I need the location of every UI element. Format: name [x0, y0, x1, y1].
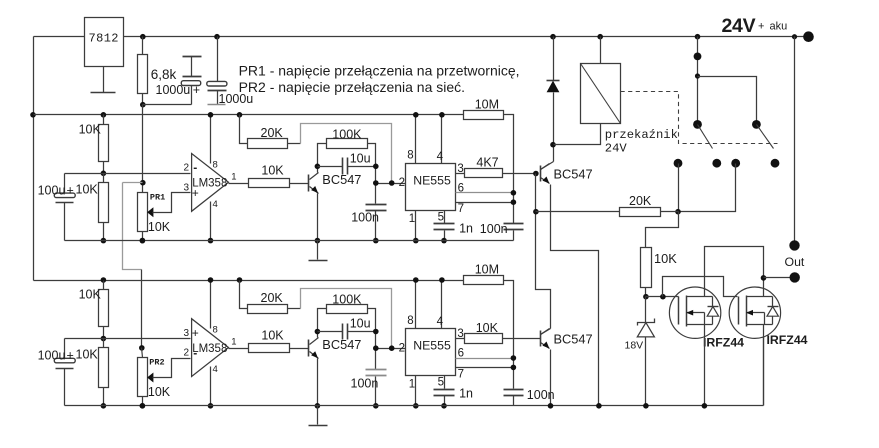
svg-text:10u: 10u: [350, 317, 371, 331]
svg-text:+: +: [67, 349, 74, 363]
svg-text:1: 1: [231, 337, 236, 348]
svg-text:-: -: [193, 346, 197, 360]
svg-text:20K: 20K: [261, 291, 284, 305]
svg-text:18V: 18V: [625, 340, 644, 352]
svg-text:100n: 100n: [351, 377, 379, 391]
svg-text:6: 6: [458, 348, 464, 360]
svg-text:IRFZ44: IRFZ44: [767, 333, 808, 347]
svg-text:BC547: BC547: [554, 332, 593, 347]
svg-text:100K: 100K: [332, 127, 362, 141]
svg-text:Out: Out: [785, 255, 805, 269]
svg-text:NE555: NE555: [413, 339, 451, 353]
svg-text:10K: 10K: [148, 220, 171, 234]
svg-text:4: 4: [213, 199, 218, 210]
svg-text:+: +: [193, 83, 200, 97]
svg-text:4: 4: [213, 364, 218, 375]
svg-text:PR1 - napięcie przełączenia na: PR1 - napięcie przełączenia na przetworn…: [239, 63, 520, 79]
svg-text:5: 5: [438, 212, 444, 224]
svg-text:2: 2: [399, 342, 405, 354]
svg-text:100K: 100K: [332, 293, 362, 307]
svg-text:+: +: [192, 186, 199, 200]
svg-text:6: 6: [458, 183, 464, 195]
svg-text:10K: 10K: [76, 348, 99, 362]
svg-text:10K: 10K: [76, 183, 99, 197]
svg-text:4: 4: [437, 316, 444, 328]
svg-text:24V: 24V: [605, 142, 628, 156]
svg-text:+: +: [192, 326, 199, 340]
svg-text:10K: 10K: [654, 251, 677, 266]
svg-text:100n: 100n: [351, 211, 379, 225]
svg-text:+: +: [67, 184, 74, 198]
svg-text:LM358: LM358: [192, 343, 227, 355]
svg-text:1n: 1n: [459, 222, 473, 236]
svg-text:10M: 10M: [475, 97, 499, 111]
svg-text:10K: 10K: [79, 288, 102, 302]
svg-text:-: -: [193, 161, 197, 175]
svg-text:1000u: 1000u: [156, 83, 191, 97]
svg-text:3: 3: [184, 328, 190, 339]
svg-text:10K: 10K: [79, 123, 102, 137]
svg-text:7812: 7812: [89, 32, 119, 46]
svg-text:7: 7: [458, 368, 464, 380]
svg-text:1: 1: [409, 378, 415, 390]
svg-text:8: 8: [213, 160, 218, 171]
svg-text:10M: 10M: [475, 263, 499, 277]
svg-text:20K: 20K: [629, 194, 652, 208]
svg-text:1: 1: [231, 171, 236, 182]
svg-text:8: 8: [407, 150, 413, 162]
svg-text:8: 8: [407, 315, 413, 327]
svg-text:PR2 - napięcie przełączenia na: PR2 - napięcie przełączenia na sieć.: [239, 79, 465, 95]
svg-text:10K: 10K: [261, 329, 284, 343]
svg-text:10u: 10u: [350, 152, 371, 166]
svg-text:10K: 10K: [148, 385, 171, 399]
svg-text:PR1: PR1: [150, 192, 165, 202]
svg-text:aku: aku: [770, 21, 788, 33]
svg-text:100n: 100n: [480, 222, 508, 236]
svg-text:przekaźnik: przekaźnik: [605, 128, 678, 142]
svg-text:3: 3: [184, 182, 190, 193]
svg-text:+: +: [758, 21, 764, 33]
svg-text:5: 5: [438, 377, 444, 389]
svg-text:4K7: 4K7: [476, 156, 498, 170]
svg-text:2: 2: [184, 348, 190, 359]
svg-text:10K: 10K: [261, 164, 284, 178]
svg-text:10K: 10K: [476, 321, 499, 335]
svg-text:2: 2: [399, 177, 405, 189]
svg-text:7: 7: [458, 203, 464, 215]
svg-text:BC547: BC547: [554, 167, 593, 182]
svg-text:3: 3: [457, 163, 463, 175]
svg-text:PR2: PR2: [149, 358, 164, 368]
svg-text:4: 4: [437, 151, 444, 163]
svg-text:IRFZ44: IRFZ44: [703, 336, 744, 350]
svg-text:1n: 1n: [459, 387, 473, 401]
svg-text:20K: 20K: [261, 126, 284, 140]
svg-text:6,8k: 6,8k: [151, 67, 177, 82]
svg-text:2: 2: [184, 163, 190, 174]
svg-text:3: 3: [457, 328, 463, 340]
svg-text:1: 1: [409, 213, 415, 225]
svg-text:100u: 100u: [38, 349, 66, 363]
svg-text:NE555: NE555: [413, 174, 451, 188]
svg-text:24V: 24V: [722, 15, 756, 37]
svg-text:8: 8: [213, 325, 218, 336]
svg-text:100u: 100u: [38, 184, 66, 198]
